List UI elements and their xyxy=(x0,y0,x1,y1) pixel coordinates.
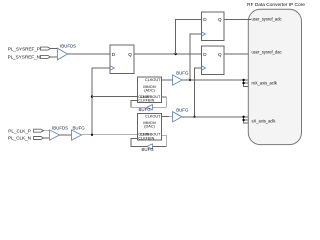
mX pin stub 2 xyxy=(244,82,249,84)
buffer IBUFDS (sysref) xyxy=(57,48,67,60)
svg-text:(DAC): (DAC) xyxy=(144,125,155,129)
wire DAC feedback to CLKFBIN xyxy=(131,139,147,147)
wire FF1 Q to user_sysref_adc xyxy=(224,18,251,20)
svg-text:PL_CLK_P: PL_CLK_P xyxy=(8,128,31,133)
port pin PL_SYSREF_N xyxy=(41,55,51,58)
wire FF1 clock from mX clock xyxy=(190,34,201,80)
wire MMCM DAC feedback loop xyxy=(152,135,166,146)
wire IBUFDS to BUFG (clk) xyxy=(60,134,72,136)
wire MMCM ADC feedback loop xyxy=(152,97,166,107)
wire FF3 Q to FF2 D xyxy=(134,53,201,55)
buffer BUFG (sX clock) xyxy=(173,112,182,122)
wire ADC feedback to CLKFBIN xyxy=(131,100,147,107)
FF1 clock chevron xyxy=(201,32,205,36)
svg-text:CLKFBIN: CLKFBIN xyxy=(138,137,154,141)
svg-text:BUFG: BUFG xyxy=(73,125,86,130)
svg-text:Q: Q xyxy=(218,52,222,57)
wire FF2 Q to user_sysref_dac xyxy=(224,53,249,55)
buffer IBUFDS (clk) xyxy=(50,130,60,140)
wire mX_axis_aclk line xyxy=(182,79,244,81)
wire clk N to IBUFDS xyxy=(44,137,50,139)
svg-text:IBUFDS: IBUFDS xyxy=(52,125,68,130)
svg-text:PL_SYSREF_P: PL_SYSREF_P xyxy=(8,46,40,51)
svg-text:user_sysref_dac: user_sysref_dac xyxy=(252,49,282,54)
RF Data Converter IP Core block xyxy=(248,9,301,144)
buffer BUFG (DAC feedback) xyxy=(147,144,153,149)
wire MMCM DAC CLKOUT to BUFG xyxy=(162,116,173,118)
wire sX_axis_aclk line xyxy=(182,116,244,118)
mX pin bracket xyxy=(244,80,249,86)
svg-text:CLKOUT: CLKOUT xyxy=(145,78,161,82)
sX pin bracket xyxy=(244,117,249,123)
flip-flop FF2 (user_sysref_dac) xyxy=(201,46,223,75)
wire FF2 clock from sX clock xyxy=(195,68,202,117)
buffer BUFG (mX clock) xyxy=(173,75,182,85)
junction mX stub 2 xyxy=(242,82,244,84)
svg-text:BUFG: BUFG xyxy=(139,107,152,112)
flip-flop FF3 (sysref retime) xyxy=(110,45,134,74)
svg-text:sX_axis_aclk: sX_axis_aclk xyxy=(252,119,277,124)
junction FF2 clock on sX line xyxy=(193,116,195,118)
FF2 clock chevron xyxy=(201,66,205,70)
wire branch up to FF1 D xyxy=(176,19,202,54)
buffer BUFG (ADC feedback) xyxy=(147,105,153,110)
wire pl_clk vertical branch xyxy=(91,68,93,135)
svg-text:BUFG: BUFG xyxy=(142,147,155,152)
port pin PL_CLK_P xyxy=(34,129,44,132)
port pin PL_SYSREF_P xyxy=(41,47,51,50)
MMCM (ADC) block xyxy=(137,77,161,103)
svg-text:Q: Q xyxy=(218,17,222,22)
wire clk P to IBUFDS xyxy=(44,130,50,132)
svg-text:RF Data Converter IP Core: RF Data Converter IP Core xyxy=(247,2,305,8)
svg-text:BUFG: BUFG xyxy=(176,108,189,113)
svg-text:(ADC): (ADC) xyxy=(144,89,155,93)
buffer BUFG (pl_clk) xyxy=(72,130,82,140)
junction sX stub 2 xyxy=(242,119,244,121)
svg-text:IBUFDS: IBUFDS xyxy=(60,43,76,48)
FF3 clock chevron xyxy=(110,66,114,71)
wire pl_clk to MMCM ADC CLKIN xyxy=(92,96,137,98)
junction pl_clk branch xyxy=(91,134,93,136)
junction node at FF D split xyxy=(174,53,176,55)
sX pin stub 1 xyxy=(244,116,249,118)
junction sX stub 1 xyxy=(242,116,244,118)
wire IBUFDS out to FF3 D xyxy=(68,53,111,55)
junction pl_clk to MMCM ADC CLKIN xyxy=(91,95,93,97)
svg-text:PL_CLK_N: PL_CLK_N xyxy=(8,136,31,141)
svg-text:Q: Q xyxy=(128,52,132,57)
junction FF1 clock on mX line xyxy=(189,79,191,81)
junction mX stub 1 xyxy=(242,79,244,81)
svg-text:PL_SYSREF_N: PL_SYSREF_N xyxy=(8,55,40,60)
sX pin stub 2 xyxy=(244,119,249,121)
wire MMCM ADC CLKOUT to BUFG xyxy=(162,79,173,81)
svg-text:CLKFBIN: CLKFBIN xyxy=(138,99,154,103)
svg-text:user_sysref_adc: user_sysref_adc xyxy=(252,17,282,22)
wire pl_clk to MMCM DAC CLKIN xyxy=(82,134,138,136)
wire sysref N to IBUFDS xyxy=(50,56,57,58)
svg-text:mX_axis_aclk: mX_axis_aclk xyxy=(252,81,278,86)
svg-text:BUFG: BUFG xyxy=(176,71,189,76)
wire pl_clk to FF3 clock xyxy=(92,67,110,69)
MMCM (DAC) block xyxy=(137,113,161,140)
flip-flop FF1 (user_sysref_adc) xyxy=(201,12,223,41)
wire sysref P to IBUFDS xyxy=(50,48,57,50)
port pin PL_CLK_N xyxy=(34,137,44,140)
mX pin stub 1 xyxy=(244,79,249,81)
svg-text:CLKOUT: CLKOUT xyxy=(145,114,161,118)
